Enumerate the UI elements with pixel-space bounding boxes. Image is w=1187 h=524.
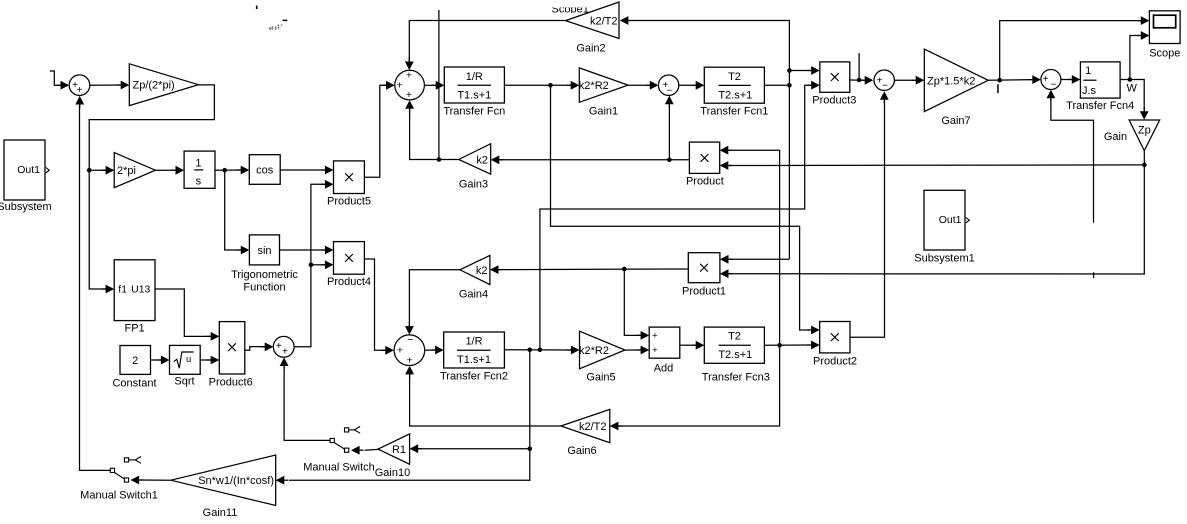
product Product3 x [831,73,839,81]
product Product4 x [345,254,353,262]
junction TF3 output rail [777,343,782,348]
junction rail to Gain10 [528,446,533,451]
svg-text:s: s [196,176,202,188]
wire Gain5 to Add [625,349,642,351]
trig sin block [249,235,279,265]
product Product2 [820,322,850,353]
wire Sum1 to Gain Zp/(2*pi) [90,84,122,86]
product Product2 x [831,333,839,341]
svg-text:W: W [1127,82,1138,94]
wire branch up to Scope in1 [1000,21,1141,81]
wire arrow into Product4 in2 [325,260,334,269]
product Product4 [334,242,365,275]
svg-text:Gain11: Gain11 [203,507,238,519]
wire arrow into Sum6 bottom [280,357,289,366]
gain Gain11 [171,455,276,506]
svg-text:Gain10: Gain10 [375,467,410,479]
wire arrow into Gain6 [610,422,619,431]
wire Transfer Fcn2 to Gain5 [504,349,571,351]
wire branch to Product3 in1 [789,70,811,72]
transfer fcn2 bar [457,349,491,351]
svg-text:sin: sin [257,245,271,257]
svg-text:Zp: Zp [1138,125,1151,137]
gain Zp/(2*pi) [129,64,198,106]
wire Gain Zp/(2*pi) output feedback rail [89,85,214,289]
wire arrow into Product5 in2 [325,180,334,189]
svg-text:Sn*w1/(In*cosf): Sn*w1/(In*cosf) [198,475,274,487]
wire Gain1 to Sum5 [628,84,650,86]
wire Zp gain output down and left to Product1 in2 [729,151,1144,274]
sum Sum2 [395,70,425,100]
gain Gain1 [579,68,628,102]
wire arrow into Gain5 [571,346,580,355]
wire Sum2 to Transfer Fcn [424,84,437,86]
junction Gain3 line to Scope1 rail [437,157,442,162]
wire arrow into Sum2 top [405,62,414,71]
constant block [120,346,151,375]
wire arrow into Sum3 top [405,326,414,335]
integrator fraction bar [194,169,203,171]
transfer fcn3 bar [719,344,751,346]
wire arrow into Scope in1 [1141,16,1150,25]
wire rail Transfer Fcn1 output up to Gain2 [630,21,789,260]
junction on rail feeding 2*pi gain [87,168,92,173]
product Product1 x [700,264,708,272]
wire Transfer Fcn4 to Zp gain [1120,80,1144,114]
wire arrow into Sum4 bottom [1047,90,1056,99]
wire arrow into Add in2 [641,346,650,355]
wire Constant to Sqrt [151,359,163,361]
wire rail down to Gain6 [618,345,780,426]
svg-text:Product: Product [686,175,724,187]
wire Sum4 bottom feed (dangling) [1051,99,1094,223]
svg-text:1/R: 1/R [466,71,483,83]
svg-text:1: 1 [195,158,201,170]
sum Sum5 [658,75,678,95]
junction TF2 output to Product3 path [538,348,543,353]
wire Transfer Fcn3 to Product2 in2 [764,344,810,346]
wire arrow into Sum1 left [61,81,70,90]
svg-text:+: + [406,70,412,82]
product Product6 [219,322,245,374]
svg-text:k2/T2: k2/T2 [590,16,618,28]
wire arrow into FP1 [106,285,115,294]
gain Gain3 [459,144,491,175]
wire Integrator to cos [215,169,241,171]
svg-text:+: + [1043,74,1049,85]
svg-text:+: + [407,355,413,367]
wire arrow into Product6 in2 [211,356,220,365]
svg-text:+: + [276,341,282,352]
wire Gain3 to Sum2 bottom [410,103,459,160]
trig cos block [249,155,280,185]
svg-text:Transfer Fcn: Transfer Fcn [443,106,505,118]
junction rail to Product3 in1 [787,68,792,73]
svg-text:Manual Switch: Manual Switch [303,462,375,474]
svg-text:+: + [77,85,83,96]
svg-text:k2*R2: k2*R2 [579,80,609,92]
svg-text:1/R: 1/R [465,336,482,348]
subsystem Subsystem1 [924,190,965,250]
wire arrow into Gain3 [491,155,500,164]
svg-text:−: − [666,86,672,97]
svg-text:R1: R1 [392,444,406,456]
svg-text:Product5: Product5 [327,196,371,208]
svg-text:2: 2 [132,355,138,367]
svg-text:+: + [397,344,403,356]
svg-text:Product1: Product1 [682,286,726,298]
junction Product output to Sum5 [667,158,672,163]
svg-text:+: + [652,345,658,356]
junction rail at Transfer Fcn1 output [787,83,792,88]
product Product x [701,154,709,162]
transfer fcn Transfer Fcn4 [1080,62,1120,98]
svg-text:+: + [282,347,288,358]
svg-text:−: − [1051,79,1057,90]
svg-text:J.s: J.s [1082,85,1097,97]
svg-text:cos: cos [256,165,274,177]
wire TF2 output up to Product3 in2 [540,85,812,350]
gain Gain4 [460,255,490,284]
junction Gain7 output [997,78,1002,83]
wire arrow into Integrator [176,166,185,175]
svg-text:Constant: Constant [112,378,156,390]
wire Gain11 to Manual Switch1 [140,479,171,481]
sqrt symbol [174,352,194,368]
wire branch down to Add in1 [624,269,642,335]
svg-text:+: + [397,79,403,91]
product Product1 [688,253,720,283]
node I label [997,84,999,93]
wire Gain4 to Sum3 top [409,270,460,328]
wire rail up to Product in1 [728,150,780,345]
svg-text:2*pi: 2*pi [117,165,136,177]
sum Sum6 [273,336,294,357]
wire arrow into Manual Switch1 [131,476,140,485]
wire arrow into Product in1 [720,146,729,155]
wire arrow into Sum7 left [865,76,874,85]
wire arrow into Zp gain [1140,111,1149,120]
wire branch to Gain10 [414,448,530,450]
add block [649,327,680,358]
wire arrow into Sum5 left [650,81,659,90]
svg-text:T1.s+1: T1.s+1 [457,89,491,101]
junction W node [1128,77,1133,82]
svg-text:Product2: Product2 [813,356,857,368]
wire arrow into Product2 in2 [811,341,820,350]
svg-text:1: 1 [1085,65,1091,77]
gain Zp down [1129,120,1160,151]
wire Transfer Fcn to Gain1 [504,84,571,86]
product Product6 x [228,343,236,351]
wire FP1 to Product6 [155,289,211,336]
svg-text:Transfer Fcn4: Transfer Fcn4 [1066,100,1134,112]
wire arrow into Scope in2 [1141,31,1150,40]
wire rail down to Gain11 [289,350,530,480]
subsystem Subsystem [4,140,45,200]
wire Sum5 to Transfer Fcn1 [679,84,696,86]
artifact colored fragment [269,28,271,30]
svg-text:Out1: Out1 [939,214,962,226]
wire arrow into Sum6 left [265,342,274,351]
svg-text:Gain2: Gain2 [576,43,605,55]
wire arrow into Product2 in1 [811,326,820,335]
wire Gain2 to Sum2 top [409,21,565,64]
sum Sum1 [69,75,90,96]
svg-text:Gain: Gain [1104,131,1127,143]
wire Product2 to Sum7 bottom [850,94,885,337]
wire arrow into Gain10 [410,444,419,453]
svg-text:U13: U13 [131,284,150,296]
junction Product1 output to Add [622,267,627,272]
junction Integrator output [222,168,227,173]
wire Sum3 to Transfer Fcn2 [425,349,436,351]
svg-text:k2*R2: k2*R2 [579,345,609,357]
sum Sum4 [1041,70,1061,90]
wire Product output to Gain3 [499,159,690,161]
wire Gain7 to Sum4 [988,79,1033,82]
svg-text:Function: Function [243,282,285,294]
wire arrow into sin [241,246,250,255]
svg-text:+: + [652,330,658,341]
sum Sum3 [394,335,425,366]
transfer fcn1 bar [719,84,751,86]
wire branch up to Sum5 bottom [668,98,670,160]
wire branch Transfer Fcn output to Product2 in1 [551,85,811,330]
wire arrow into Gain7 [916,76,925,85]
wire arrow into Sum7 bottom [880,91,889,100]
wire arrow into Transfer Fcn3 [696,341,705,350]
wire branch down to sin [225,170,241,250]
svg-text:Zp*1.5*k2: Zp*1.5*k2 [927,75,975,87]
transfer fcn Transfer Fcn [444,67,504,103]
svg-text:Transfer Fcn2: Transfer Fcn2 [440,371,508,383]
svg-text:f1: f1 [118,284,127,296]
svg-text:Manual Switch1: Manual Switch1 [80,490,158,502]
gain Gain10 [378,434,410,464]
gain Gain2 [566,2,620,39]
svg-text:T1.s+1: T1.s+1 [457,354,491,366]
svg-text:Transfer Fcn1: Transfer Fcn1 [700,106,768,118]
svg-text:T2: T2 [728,330,741,342]
svg-text:T2.s+1: T2.s+1 [718,349,752,361]
junction Product3 output stub [857,78,862,83]
block FP1 [114,260,155,321]
wire Manual Switch1 to Sum1 bottom [80,99,111,470]
wire arrow into Gain2 [620,16,629,25]
wire arrow into Sum4 left [1032,75,1041,84]
wire arrow into Add in1 [641,331,650,340]
wire arrow into cos [241,166,250,175]
sum Sum7 [874,70,894,90]
wire arrow into Sum5 bottom [665,96,674,105]
gain Gain6 [561,409,610,442]
wire Sum6 output rail [294,184,325,346]
svg-text:k2/T2: k2/T2 [579,421,607,433]
wire Add to Transfer Fcn3 [680,344,696,346]
wire Product5 to Sum2 [364,85,386,177]
transfer fcn4 bar [1083,79,1096,81]
svg-text:Add: Add [654,363,674,375]
wire stub above Product3 output [858,53,860,80]
wire arrow into Sum2 bottom [405,100,414,109]
svg-text:−: − [407,334,413,346]
gain 2*pi [114,153,155,188]
svg-text:Subsystem: Subsystem [0,201,52,213]
wire cos to Product5 [280,169,325,171]
product Product [689,142,719,173]
wire branch up to Scope in2 [1130,36,1141,80]
svg-text:Out1: Out1 [17,164,40,176]
wire 2*pi to Integrator [155,169,176,171]
subsystem Subsystem1 output port chevron [966,218,970,223]
junction Sum6 rail to Product4 [309,263,314,268]
scope block [1149,11,1180,44]
wire arrow into Sum3 bottom [405,366,414,375]
wire input stub into Sum1 [50,71,62,85]
subsystem Subsystem output port chevron [46,168,50,173]
gain Gain5 [580,331,626,369]
wire arrow into Transfer Fcn2 [435,346,444,355]
wire arrow into Product5 in1 [325,166,334,175]
svg-text:T2: T2 [728,71,741,83]
svg-text:Gain5: Gain5 [586,372,615,384]
wire Product3 to Sum7 [850,79,866,81]
transfer fcn Transfer Fcn3 [704,327,764,363]
svg-text:u: u [186,354,191,365]
wire Product4 to Sum3 [364,259,385,350]
transfer fcn bar [458,84,492,86]
svg-text:Product6: Product6 [209,376,253,388]
svg-text:+: + [406,89,412,101]
svg-text:Gain1: Gain1 [589,106,618,118]
wire Product1 output to Gain4 [499,268,689,271]
wire arrow into 2*pi gain [106,166,115,175]
wire branch to 2*pi gain [89,169,106,171]
artifact dash [283,20,288,22]
wire arrow into Product1 in1 [720,255,729,264]
manual switch Manual Switch [345,428,349,432]
product Product5 [334,161,365,194]
product Product5 x [345,173,353,181]
wire arrow into Product1 in2 [720,269,729,278]
junction Transfer Fcn output [548,83,553,88]
svg-text:Gain4: Gain4 [459,289,488,301]
product Product3 [820,62,850,92]
wire arrow into Gain11 [276,476,285,485]
integrator block [184,151,215,188]
wire Sum4 to Transfer Fcn4 [1061,79,1073,81]
wire Sqrt to Product6 [200,359,211,361]
svg-text:−: − [882,81,888,92]
wire Manual Switch to Sum6 bottom [284,360,330,440]
svg-text:Gain3: Gain3 [459,179,488,191]
svg-text:FP1: FP1 [125,323,145,335]
svg-text:Sqrt: Sqrt [174,375,194,387]
svg-text:k2: k2 [476,265,488,277]
svg-text:Subsystem1: Subsystem1 [914,253,975,265]
wire arrow into Transfer Fcn1 [696,81,705,90]
wire arrow into Gain1 [571,81,580,90]
wire Sum7 to Gain7 [894,79,916,81]
wire arrow into Gain4 [490,265,499,274]
wire sin to Product4 [280,249,326,251]
svg-text:Transfer Fcn3: Transfer Fcn3 [702,372,770,384]
svg-text:Scope: Scope [1149,48,1180,60]
wire tick on feedback line [1093,272,1095,278]
svg-text:Gain6: Gain6 [567,445,596,457]
wire Gain6 to Sum3 bottom [410,369,561,427]
svg-text:Product3: Product3 [812,95,856,107]
wire arrow into Product4 in1 [325,246,334,255]
manual switch Manual Switch1 [124,458,128,462]
wire arrow into Manual Switch [351,446,360,455]
wire arrow into Sum1 bottom [75,96,84,105]
svg-text:Product4: Product4 [327,276,371,288]
wire arrow into Product6 in1 [211,332,220,341]
scope screen [1154,15,1176,28]
svg-text:Zp/(2*pi): Zp/(2*pi) [133,80,175,92]
wire Gain10 to Manual Switch [365,448,378,451]
wire arrow into Transfer Fcn4 [1072,75,1081,84]
wire branch to Product4 in2 [311,264,325,266]
wire arrow into Product3 in2 [811,81,820,90]
wire rail up toward Scope1 [438,10,440,160]
transfer fcn Transfer Fcn2 [444,332,505,368]
wire arrow into Gain Zp/(2*pi) [121,81,130,90]
wire arrow into Sum2 left [386,81,395,90]
wire Transfer Fcn1 to rail [764,84,789,86]
junction TF2 output to switches rail [528,348,533,353]
wire Product6 to Sum6 [245,347,266,351]
svg-text:Gain7: Gain7 [941,115,970,127]
junction Zp output split [1142,163,1147,168]
wire arrow into Sqrt [161,356,170,365]
sqrt block [170,345,201,374]
wire arrow into Product3 in1 [811,66,820,75]
gain Gain7 [924,49,988,112]
svg-text:T2.s+1: T2.s+1 [718,90,752,102]
wire rail bottom into Product1 in1 [728,258,789,260]
transfer fcn Transfer Fcn1 [704,67,764,103]
wire arrow into Product in2 [720,161,729,170]
wire Zp output to Product in2 [728,164,1144,167]
svg-text:Trigonometric: Trigonometric [231,269,298,281]
wire arrow into Sum3 left [385,346,394,355]
artifact tick [256,6,258,9]
artifact Scope1 label remnant [552,4,589,16]
wire arrow into Transfer Fcn [436,81,445,90]
svg-text:k2: k2 [476,155,488,167]
